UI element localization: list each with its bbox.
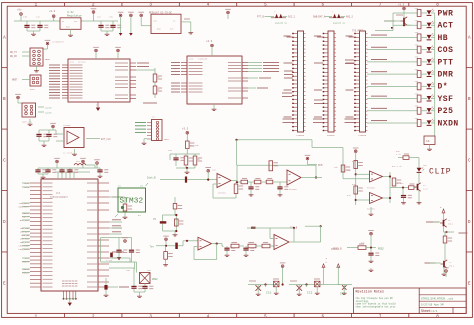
svg-text:MCP6002: MCP6002 <box>289 188 297 191</box>
svg-text:Revision Notes: Revision Notes <box>356 290 385 295</box>
svg-text:Txe: Txe <box>150 245 155 248</box>
svg-text:DVM: DVM <box>318 164 323 167</box>
svg-text:AN2_2: AN2_2 <box>346 16 354 19</box>
svg-text:RSS2: RSS2 <box>378 247 384 250</box>
svg-text:EXT_CLK: EXT_CLK <box>20 219 30 222</box>
svg-text:PTHD2A: PTHD2A <box>359 134 367 137</box>
svg-text:+3.3: +3.3 <box>49 10 56 13</box>
svg-text:LM7555: LM7555 <box>63 124 71 127</box>
svg-text:+3.3: +3.3 <box>206 40 213 43</box>
svg-text:C46 1uF: C46 1uF <box>395 182 404 185</box>
svg-text:MCP6002: MCP6002 <box>218 192 226 195</box>
svg-text:VX7805SMT: VX7805SMT <box>52 41 65 44</box>
svg-text:IRLZ: IRLZ <box>449 265 455 268</box>
svg-text:10u: 10u <box>109 16 114 19</box>
svg-text:TIM4: TIM4 <box>24 182 30 185</box>
svg-text:X2 TCXO: X2 TCXO <box>63 152 73 155</box>
svg-text:IC3: IC3 <box>340 293 346 296</box>
svg-text:IC6: IC6 <box>56 192 61 195</box>
svg-text:DMR: DMR <box>438 71 454 80</box>
svg-text:out: out <box>154 20 158 23</box>
svg-text:4.7k: 4.7k <box>396 153 402 156</box>
svg-text:SWCLK: SWCLK <box>22 272 29 275</box>
svg-text:than interchangeable but proc: than interchangeable but proc <box>356 305 397 308</box>
svg-text:P25: P25 <box>438 107 454 116</box>
svg-text:C30: C30 <box>23 16 28 19</box>
svg-text:NRST: NRST <box>12 79 18 82</box>
svg-text:+3.3: +3.3 <box>182 128 189 131</box>
svg-text:2222: 2222 <box>423 188 429 191</box>
svg-text:ACT: ACT <box>438 22 454 31</box>
svg-text:R14 10k: R14 10k <box>190 144 199 147</box>
svg-text:SV2_2: SV2_2 <box>288 16 296 19</box>
svg-text:STM32: STM32 <box>120 198 144 206</box>
svg-text:SUSPD: SUSPD <box>45 112 52 115</box>
svg-text:MCP6002: MCP6002 <box>367 187 375 190</box>
svg-text:TVS_MOST: TVS_MOST <box>352 29 364 32</box>
svg-text:DB_RX: DB_RX <box>10 55 18 58</box>
svg-text:NXDN: NXDN <box>438 119 459 128</box>
svg-text:IRLZ: IRLZ <box>448 223 454 226</box>
svg-text:PTT_B: PTT_B <box>257 16 265 19</box>
svg-text:SWB/BAT_A: SWB/BAT_A <box>313 16 326 19</box>
svg-text:TXB0108: TXB0108 <box>198 58 208 61</box>
svg-text:UART_SEL: UART_SEL <box>22 121 33 124</box>
svg-text:PTHD2A: PTHD2A <box>297 134 305 137</box>
svg-text:Disk_B: Disk_B <box>147 176 156 179</box>
svg-text:Sheet:: Sheet: <box>421 309 433 313</box>
svg-text:PTT: PTT <box>438 58 454 67</box>
svg-text:IC2: IC2 <box>307 292 313 295</box>
svg-text:CP2102: CP2102 <box>78 60 87 63</box>
svg-text:PTHD2A: PTHD2A <box>327 134 335 137</box>
svg-text:DS: DS <box>153 218 157 221</box>
svg-text:STM32F446RETX: STM32F446RETX <box>50 196 69 199</box>
svg-text:+3.3: +3.3 <box>398 4 405 7</box>
svg-text:TERM: TERM <box>45 58 51 61</box>
svg-text:COS: COS <box>438 46 454 55</box>
svg-text:EXT_CLK: EXT_CLK <box>101 138 111 141</box>
svg-text:C31: C31 <box>36 16 41 19</box>
svg-text:SUSPD: SUSPD <box>45 107 52 110</box>
svg-text:CLIP: CLIP <box>429 167 451 176</box>
svg-text:8MHz: 8MHz <box>152 278 158 281</box>
svg-text:BOOT0: BOOT0 <box>22 261 29 264</box>
svg-text:MOD_MOST: MOD_MOST <box>18 206 29 209</box>
svg-text:C32: C32 <box>97 16 102 19</box>
svg-text:16: 16 <box>426 140 430 143</box>
svg-text:5/27/19 4pm XM: 5/27/19 4pm XM <box>421 303 444 307</box>
svg-text:YSF: YSF <box>438 95 454 104</box>
svg-text:+5v: +5v <box>17 9 22 12</box>
svg-text:BOOT: BOOT <box>30 88 36 91</box>
svg-text:ANALOG SW: ANALOG SW <box>275 21 288 24</box>
svg-text:D*: D* <box>438 83 449 92</box>
svg-text:IC1: IC1 <box>266 292 272 295</box>
svg-text:LED_NXDN: LED_NXDN <box>18 248 29 251</box>
svg-text:1/1: 1/1 <box>433 309 438 313</box>
svg-text:TIM8: TIM8 <box>24 186 30 189</box>
svg-text:STM32_DVM_MTR2K .sch: STM32_DVM_MTR2K .sch <box>421 296 454 300</box>
svg-text:R32 4.7k: R32 4.7k <box>392 165 402 168</box>
svg-text:MOST: MOST <box>164 138 170 141</box>
svg-text:IC5: IC5 <box>189 58 194 61</box>
svg-text:Regulator: Regulator <box>67 13 82 17</box>
svg-text:HB: HB <box>438 34 449 43</box>
svg-text:IC4: IC4 <box>70 60 75 63</box>
svg-text:DB_TX: DB_TX <box>10 51 18 54</box>
svg-text:4.7uF: 4.7uF <box>106 259 113 262</box>
svg-text:ANALOG SW: ANALOG SW <box>333 21 346 24</box>
svg-text:PWR: PWR <box>438 9 454 18</box>
